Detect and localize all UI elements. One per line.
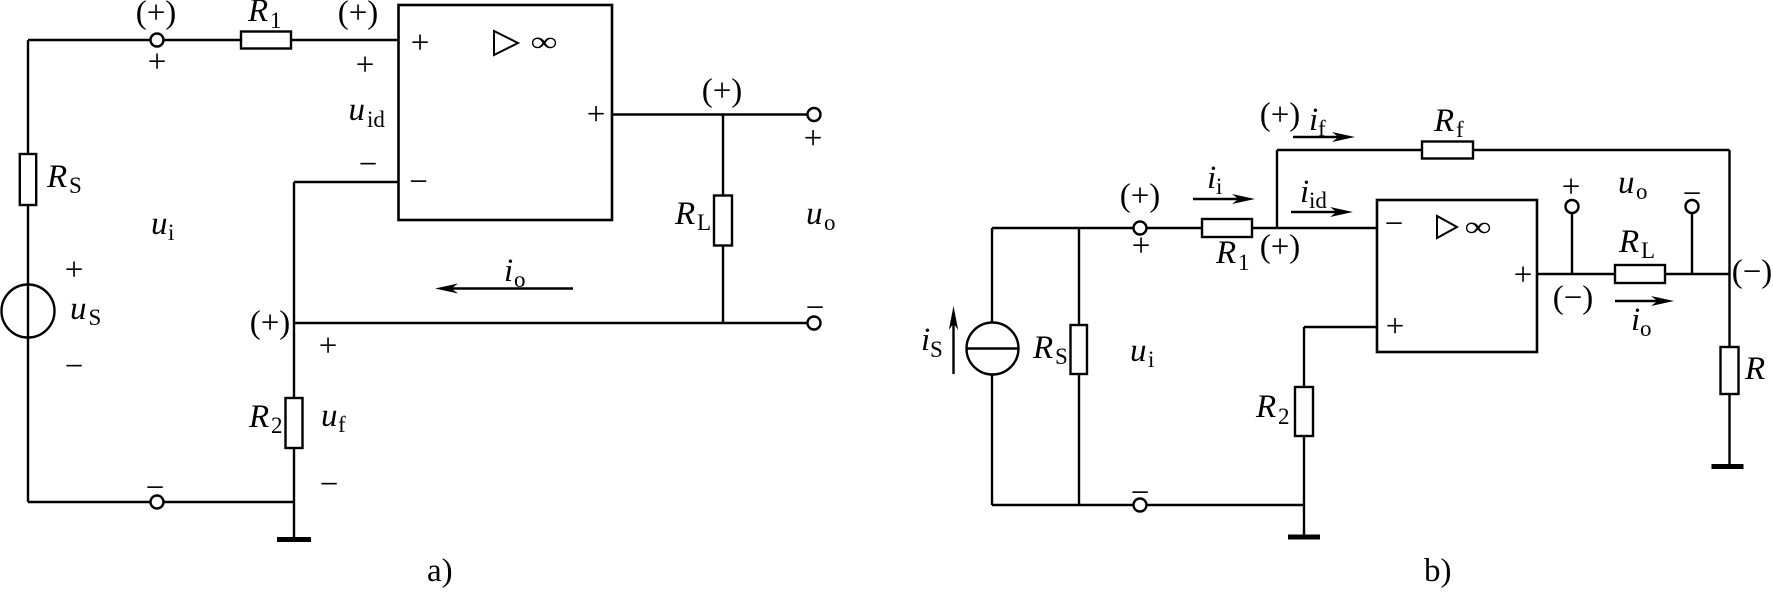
svg-text:+: + (1514, 257, 1533, 293)
svg-text:i: i (1309, 102, 1318, 138)
svg-text:+: + (587, 97, 606, 133)
arrowhead io a (left) (435, 284, 458, 294)
op-amp U1 triangle (494, 31, 518, 55)
svg-text:∞: ∞ (1464, 212, 1491, 243)
svg-text:(+): (+) (1260, 229, 1301, 265)
wire feedback top b (1277, 149, 1730, 151)
svg-text:(+): (+) (702, 73, 743, 109)
svg-text:R: R (247, 0, 268, 29)
node terminal output a (808, 108, 821, 121)
arrowhead ii (right) (1232, 194, 1255, 204)
terminal stub plus b (1571, 212, 1573, 274)
svg-text:i: i (1216, 174, 1222, 199)
wire bottom output a (294, 322, 814, 324)
op-amp U2 triangle (1437, 216, 1457, 238)
svg-text:R: R (248, 399, 269, 435)
resistor RS (20, 154, 36, 205)
svg-text:+: + (319, 328, 338, 364)
svg-text:o: o (1636, 179, 1648, 204)
resistor RS b (1071, 325, 1088, 374)
wire feedback vertical + R2 leg a (293, 182, 295, 502)
node terminal input b (1134, 222, 1147, 235)
svg-text:i: i (1631, 302, 1640, 338)
svg-text:L: L (1641, 238, 1655, 263)
svg-text:−: − (146, 470, 165, 506)
resistor R (1721, 347, 1739, 394)
node terminal bottom a (151, 496, 164, 509)
terminal stub minus b (1691, 212, 1693, 274)
terminal circle minus b (1686, 200, 1699, 213)
svg-text:id: id (1309, 188, 1327, 213)
svg-text:R: R (46, 159, 67, 195)
wire output a (612, 113, 814, 115)
svg-text:−: − (1131, 475, 1150, 511)
current source iS bar (967, 347, 1019, 349)
svg-text:−: − (359, 147, 378, 183)
svg-text:−: − (1683, 176, 1702, 212)
svg-text:+: + (356, 47, 375, 83)
svg-text:L: L (697, 210, 711, 235)
svg-text:+: + (804, 121, 823, 157)
svg-text:a): a) (427, 553, 453, 589)
svg-text:b): b) (1424, 553, 1452, 589)
wire RL vertical a (722, 115, 724, 324)
svg-text:i: i (1207, 160, 1216, 196)
resistor R1 (241, 32, 291, 49)
resistor R1 b (1202, 219, 1252, 237)
svg-text:+: + (148, 44, 167, 80)
wire feedback vertical b (1276, 150, 1278, 228)
wire left source branch a (27, 40, 29, 502)
svg-text:−: − (320, 467, 339, 503)
svg-text:R: R (1255, 389, 1276, 425)
wire top input a (28, 39, 398, 41)
ground R (1712, 464, 1744, 469)
wire source bottom b (991, 375, 993, 506)
svg-text:R: R (674, 196, 695, 232)
svg-text:i: i (1300, 174, 1309, 210)
wire source top b (991, 228, 993, 323)
arrowhead if (right) (1332, 132, 1355, 142)
svg-text:R: R (1744, 351, 1765, 387)
voltage source uS (circle, wire passes through) (2, 285, 55, 338)
svg-text:u: u (321, 398, 338, 434)
svg-text:i: i (1148, 347, 1154, 372)
svg-text:(−): (−) (1553, 280, 1594, 316)
arrow line iS (952, 322, 954, 374)
arrowhead iS (up) (949, 306, 958, 330)
svg-text:i: i (921, 322, 930, 358)
svg-text:S: S (1055, 344, 1068, 369)
arrowhead io b (right) (1651, 296, 1674, 306)
wire feedback horizontal a (294, 181, 399, 183)
svg-text:+: + (1386, 309, 1405, 345)
svg-text:(+): (+) (136, 0, 177, 31)
svg-text:S: S (69, 173, 82, 198)
arrowhead iid (right) (1330, 207, 1353, 217)
wire RS branch b (1078, 228, 1080, 505)
node terminal bottom b (1134, 499, 1147, 512)
svg-text:(+): (+) (250, 305, 291, 341)
arrow line ii b (1193, 198, 1243, 200)
svg-text:R: R (1032, 330, 1053, 366)
wire bottom b (992, 504, 1304, 506)
svg-text:S: S (89, 305, 102, 330)
svg-text:id: id (367, 107, 385, 132)
wire main input b (992, 227, 1377, 229)
wire bottom a (28, 501, 294, 503)
svg-text:−: − (806, 290, 825, 326)
resistor RL b (1615, 265, 1665, 283)
op-amp U2 box (1377, 200, 1537, 352)
svg-text:o: o (1640, 316, 1652, 341)
op-amp U1 box (399, 5, 613, 220)
svg-text:R: R (1433, 103, 1454, 139)
svg-text:+: + (1132, 228, 1151, 264)
resistor R2 (286, 398, 303, 448)
ground b (1303, 505, 1305, 535)
resistor RL (714, 196, 732, 246)
wire right vertical b (1728, 150, 1730, 464)
svg-text:i: i (168, 220, 174, 245)
svg-text:u: u (349, 92, 366, 128)
svg-text:+: + (411, 25, 430, 61)
svg-text:+: + (1562, 169, 1581, 205)
svg-text:R: R (1618, 224, 1639, 260)
wire output b (1537, 273, 1730, 275)
svg-text:u: u (70, 291, 87, 327)
svg-text:(+): (+) (1120, 178, 1161, 214)
resistor Rf (1422, 142, 1473, 159)
svg-text:−: − (65, 349, 84, 385)
svg-text:R: R (1215, 235, 1236, 271)
terminal circle plus b (1566, 200, 1579, 213)
svg-text:−: − (409, 164, 428, 200)
svg-text:∞: ∞ (530, 27, 557, 58)
ground a (293, 502, 295, 537)
svg-text:−: − (1385, 206, 1404, 242)
node terminal bottom output a (808, 317, 821, 330)
arrow line iid b (1291, 211, 1341, 213)
svg-text:o: o (514, 267, 526, 292)
arrow line io b (1615, 300, 1662, 302)
resistor R2 b (1295, 387, 1313, 436)
svg-text:u: u (151, 206, 168, 242)
svg-text:u: u (1130, 333, 1147, 369)
svg-text:o: o (824, 210, 836, 235)
svg-text:f: f (1456, 117, 1464, 142)
svg-text:2: 2 (271, 413, 283, 438)
current source iS circle (967, 323, 1019, 375)
svg-text:1: 1 (1238, 250, 1250, 275)
svg-text:(+): (+) (338, 0, 379, 31)
svg-text:(+): (+) (1260, 97, 1301, 133)
svg-text:1: 1 (270, 8, 282, 33)
svg-text:f: f (338, 412, 346, 437)
current arrow io a (450, 287, 573, 289)
svg-text:2: 2 (1278, 404, 1290, 429)
arrow line if b (1293, 136, 1343, 138)
wire R2 branch b (1303, 327, 1305, 505)
svg-text:f: f (1318, 116, 1326, 141)
node terminal input a (151, 34, 164, 47)
svg-text:u: u (1618, 165, 1635, 201)
svg-text:i: i (504, 253, 513, 289)
svg-text:u: u (806, 196, 823, 232)
svg-text:(−): (−) (1732, 254, 1773, 290)
wire noninverting input b (1304, 326, 1377, 328)
svg-text:+: + (65, 252, 84, 288)
svg-text:S: S (930, 337, 943, 362)
